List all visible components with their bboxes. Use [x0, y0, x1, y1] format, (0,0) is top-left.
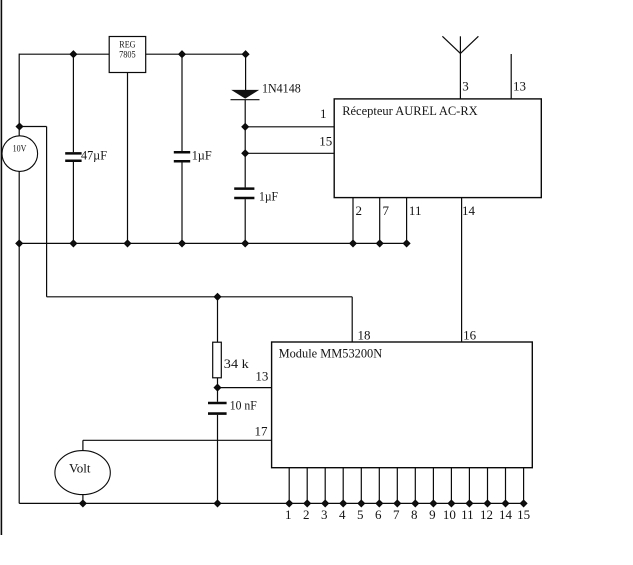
- 10V source circle V1: [2, 136, 38, 172]
- capacitor C4 10nF bottom plate: [208, 412, 227, 415]
- svg-text:3: 3: [321, 507, 328, 522]
- node junction voltmeter on bottom rail: [80, 500, 86, 506]
- capacitor C1 47uF top plate: [65, 152, 81, 155]
- svg-text:Volt: Volt: [69, 461, 91, 476]
- antenna right arm: [460, 36, 478, 53]
- wire to receiver pin 1: [245, 126, 334, 128]
- wire bottom ground rail: [19, 502, 523, 504]
- page left border line: [0, 0, 2, 535]
- node junction REG ground on mid rail: [124, 240, 130, 246]
- svg-text:14: 14: [462, 203, 476, 218]
- node junction supply bottom corner on mid rail: [16, 240, 22, 246]
- svg-text:2: 2: [303, 507, 310, 522]
- node junction 10V top: [16, 123, 22, 129]
- antenna left arm: [442, 36, 460, 53]
- wire branch vertical down to data tap: [46, 127, 48, 297]
- svg-text:14: 14: [499, 507, 513, 522]
- node junction 47uF top: [70, 51, 76, 57]
- svg-text:4: 4: [339, 507, 346, 522]
- node junction bottom pin 7: [394, 500, 400, 506]
- wire receiver pin 11 stub: [406, 198, 408, 244]
- wire pin13 node down to capacitor C4: [217, 388, 219, 402]
- svg-text:9: 9: [429, 507, 436, 522]
- node junction C2 on mid rail: [179, 240, 185, 246]
- receiver box Recepteur AUREL AC-RX: [334, 99, 541, 198]
- svg-text:10: 10: [443, 507, 456, 522]
- voltmeter wire vertical from meter top: [82, 440, 84, 450]
- node junction bottom pin 10: [448, 500, 454, 506]
- wire diode anode vertical: [245, 54, 247, 90]
- wire resistor bottom lead: [217, 378, 219, 388]
- wire receiver pin 13 top: [510, 54, 512, 99]
- svg-text:1: 1: [320, 106, 327, 121]
- node junction bottom pin 15: [520, 500, 526, 506]
- wire module bottom pin stub 1: [288, 468, 290, 504]
- wire C3 bottom to mid rail: [244, 199, 246, 243]
- svg-text:18: 18: [358, 327, 371, 342]
- svg-text:7: 7: [382, 203, 389, 218]
- module box Module MM53200N: [272, 342, 533, 468]
- svg-text:12: 12: [480, 507, 493, 522]
- node junction pin15 tap: [242, 150, 248, 156]
- wire C1 bottom to mid rail: [72, 162, 74, 243]
- capacitor C2 1uF branch upper wire: [181, 54, 183, 151]
- capacitor C1 47uF branch upper wire: [72, 54, 74, 152]
- wire module bottom pin stub 9: [432, 468, 434, 504]
- node junction bottom pin 8: [412, 500, 418, 506]
- node junction C1 on mid rail: [70, 240, 76, 246]
- node junction resistor tap: [214, 294, 220, 300]
- wire module bottom pin stub 4: [342, 468, 344, 504]
- svg-text:15: 15: [517, 507, 530, 522]
- wire module bottom pin stub 7: [396, 468, 398, 504]
- wire module bottom pin stub 5: [360, 468, 362, 504]
- wire resistor top lead: [217, 297, 219, 342]
- node junction bottom pin 3: [322, 500, 328, 506]
- voltmeter wire top horizontal to module pin 17: [83, 439, 272, 441]
- diode D1 cathode bar: [231, 99, 260, 101]
- node junction pin13 tap: [214, 384, 220, 390]
- wire REG ground pin down to mid rail: [127, 73, 129, 244]
- voltmeter M1 ellipse: [55, 451, 110, 495]
- svg-text:13: 13: [513, 79, 526, 94]
- capacitor C2 1uF bottom plate: [174, 160, 190, 163]
- capacitor C3 1uF bottom plate: [234, 197, 254, 200]
- svg-text:47µF: 47µF: [81, 147, 107, 162]
- node junction C3 on mid rail: [242, 240, 248, 246]
- diode D1 1N4148 triangle: [231, 90, 259, 99]
- wire module bottom pin stub 11: [468, 468, 470, 504]
- wire module bottom pin stub 14: [505, 468, 507, 504]
- capacitor C3 1uF top plate: [234, 187, 254, 190]
- svg-text:1: 1: [285, 507, 292, 522]
- wire data tap horizontal to module pin 18: [47, 296, 353, 298]
- wire module bottom pin stub 6: [378, 468, 380, 504]
- node junction bottom pin 5: [358, 500, 364, 506]
- wire diode cathode down to pin1 node: [244, 100, 246, 127]
- wire module bottom pin stub 15: [523, 468, 525, 504]
- node junction C4 on bottom rail: [214, 500, 220, 506]
- wire voltmeter bottom stub: [82, 495, 84, 504]
- wire to receiver pin 15: [245, 152, 334, 154]
- wire module pin 18 stub down: [351, 297, 353, 342]
- wire module bottom pin stub 2: [306, 468, 308, 504]
- regulator U1 box REG 7805: [109, 37, 146, 73]
- wire 10V bottom to mid rail: [18, 171, 20, 243]
- svg-text:3: 3: [462, 79, 469, 94]
- svg-text:1N4148: 1N4148: [262, 80, 301, 95]
- node junction bottom pin 9: [430, 500, 436, 506]
- wire receiver pin 2 stub: [352, 198, 354, 244]
- svg-text:13: 13: [255, 368, 268, 383]
- wire mid ground rail: [19, 242, 406, 244]
- wire ground left vertical mid rail to bottom rail: [18, 243, 20, 503]
- node junction pin11 on mid rail: [403, 240, 409, 246]
- antenna vertical element: [459, 36, 461, 99]
- node junction bottom pin 4: [340, 500, 346, 506]
- wire supply left vertical down to 10V source: [18, 54, 20, 136]
- wire from 10V top node to branch corner: [20, 126, 47, 128]
- capacitor C2 1uF top plate: [174, 151, 190, 154]
- node junction diode top: [242, 51, 248, 57]
- svg-text:11: 11: [409, 203, 422, 218]
- wire to module pin 13: [218, 387, 272, 389]
- svg-text:11: 11: [461, 507, 474, 522]
- node junction bottom pin 6: [376, 500, 382, 506]
- capacitor C4 10nF top plate: [208, 402, 227, 405]
- node junction pin2 on mid rail: [350, 240, 356, 246]
- wire receiver pin 7 stub: [379, 198, 381, 244]
- svg-text:7805: 7805: [119, 49, 136, 60]
- wire pin15 node down to capacitor C3: [244, 153, 246, 187]
- svg-text:1µF: 1µF: [192, 148, 212, 163]
- node junction bottom pin 1: [286, 500, 292, 506]
- node junction bottom pin 11: [466, 500, 472, 506]
- svg-text:7: 7: [393, 507, 400, 522]
- svg-text:34 k: 34 k: [224, 356, 250, 371]
- wire receiver pin 14 down to module pin 16: [461, 198, 463, 342]
- svg-text:8: 8: [411, 507, 418, 522]
- resistor R1 34k body: [213, 342, 222, 378]
- wire top rail from supply corner to diode branch (left of REG): [19, 53, 109, 55]
- svg-text:2: 2: [355, 203, 362, 218]
- svg-text:16: 16: [463, 327, 477, 342]
- svg-text:1µF: 1µF: [259, 188, 278, 203]
- capacitor C1 47uF bottom plate: [65, 160, 81, 163]
- wire module bottom pin stub 12: [487, 468, 489, 504]
- wire top rail right of REG: [146, 53, 246, 55]
- node junction bottom pin 14: [502, 500, 508, 506]
- svg-text:17: 17: [255, 423, 269, 438]
- svg-text:5: 5: [357, 507, 364, 522]
- wire module bottom pin stub 3: [324, 468, 326, 504]
- node junction bottom pin 12: [484, 500, 490, 506]
- wire module bottom pin stub 8: [414, 468, 416, 504]
- wire C2 bottom to mid rail: [181, 162, 183, 243]
- svg-text:6: 6: [375, 507, 382, 522]
- wire C4 bottom down to bottom rail (crosses volt wire): [217, 415, 219, 504]
- node junction pin1 tap: [242, 124, 248, 130]
- svg-text:10 nF: 10 nF: [230, 397, 257, 412]
- node junction bottom pin 2: [304, 500, 310, 506]
- svg-text:Récepteur AUREL AC-RX: Récepteur AUREL AC-RX: [342, 103, 478, 118]
- node junction 1uF top: [179, 51, 185, 57]
- wire module bottom pin stub 10: [450, 468, 452, 504]
- wire between pin1 node and pin15 node: [244, 127, 246, 154]
- svg-text:Module MM53200N: Module MM53200N: [279, 346, 383, 361]
- svg-text:15: 15: [319, 133, 332, 148]
- svg-text:10V: 10V: [13, 145, 27, 155]
- node junction pin7 on mid rail: [377, 240, 383, 246]
